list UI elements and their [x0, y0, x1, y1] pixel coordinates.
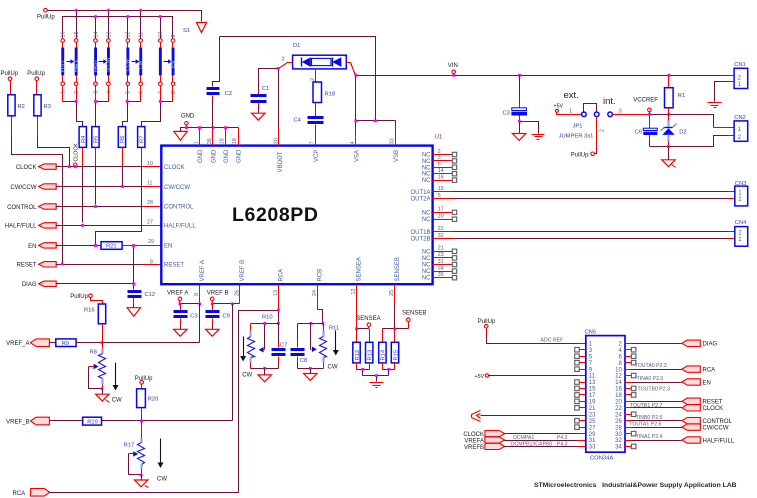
svg-text:DIAG: DIAG [22, 282, 37, 288]
arrow CW R17 [157, 439, 167, 483]
svg-text:NC: NC [422, 165, 431, 171]
svg-text:20: 20 [438, 214, 444, 220]
svg-text:CN2: CN2 [734, 115, 746, 121]
svg-text:33: 33 [589, 445, 596, 451]
svg-text:TOUTB1 P2.7: TOUTB1 P2.7 [630, 403, 663, 409]
svg-text:33: 33 [390, 138, 396, 144]
svg-text:R16: R16 [84, 308, 95, 314]
svg-text:R20: R20 [148, 397, 159, 403]
wire HALF/FULL [56, 225, 143, 227]
svg-text:16: 16 [438, 174, 444, 180]
svg-text:FAST: FAST [93, 59, 99, 72]
svg-text:CW/CCW: CW/CCW [164, 185, 190, 191]
wire +5V to pin11 [489, 375, 578, 377]
svg-text:28: 28 [615, 425, 622, 431]
svg-text:9: 9 [171, 35, 177, 38]
potentiometer R11 [310, 322, 340, 369]
svg-text:R15: R15 [393, 350, 399, 361]
wire RCB top rail [298, 323, 324, 325]
wire VIN line [356, 75, 727, 77]
wire VREF_B line [102, 420, 233, 422]
node CLOCK marker [74, 143, 80, 167]
svg-text:OUT1B: OUT1B [410, 230, 430, 236]
svg-text:R21: R21 [106, 244, 117, 250]
wire RCA bottom rail [251, 368, 279, 370]
svg-text:VIN: VIN [448, 63, 458, 69]
resistor R19 [50, 417, 102, 425]
svg-text:19: 19 [589, 400, 596, 406]
svg-text:VREF B: VREF B [207, 291, 229, 297]
port CONTROL [7, 204, 56, 211]
ground R8 [96, 394, 110, 402]
pin9 stub [199, 285, 201, 304]
svg-text:R9: R9 [62, 341, 69, 347]
ground C12 [127, 308, 140, 317]
port RESET [16, 262, 56, 269]
potentiometer R8 [89, 343, 106, 395]
wire RESET [56, 264, 143, 266]
potentiometer R17 [124, 421, 145, 480]
svg-text:CN4: CN4 [735, 220, 747, 226]
svg-text:D2: D2 [679, 129, 686, 135]
svg-text:SENSEB: SENSEB [395, 257, 401, 281]
wire ADC REF to pin1 [486, 329, 488, 335]
svg-text:RCA: RCA [279, 269, 285, 282]
svg-text:7: 7 [158, 91, 164, 94]
svg-text:NC: NC [422, 210, 431, 216]
wire CW/CCW pin28 / port CW/CCW [625, 427, 633, 429]
wire OUT2B [433, 238, 454, 240]
wire R5 to CONTROL [95, 148, 97, 167]
svg-text:NC: NC [422, 256, 431, 262]
svg-text:PullUp: PullUp [70, 294, 88, 300]
CN5 left NC stubs [575, 348, 586, 430]
svg-text:R3: R3 [44, 104, 51, 110]
svg-text:31: 31 [589, 438, 596, 444]
svg-text:28: 28 [147, 200, 153, 206]
ground C5 earth [532, 135, 545, 140]
svg-text:VSA: VSA [355, 150, 361, 162]
svg-text:34: 34 [615, 445, 622, 451]
svg-text:18: 18 [615, 393, 622, 399]
port RCA [13, 489, 50, 498]
wire OUT2A [433, 198, 454, 200]
port VREF_A [6, 339, 49, 347]
svg-text:11: 11 [147, 180, 153, 186]
svg-text:NC: NC [422, 153, 431, 159]
node VREF B [207, 291, 229, 304]
svg-text:VSB: VSB [394, 150, 400, 162]
svg-text:30: 30 [615, 432, 622, 438]
port CLOCK [16, 164, 56, 171]
resistor R12 [353, 329, 361, 370]
svg-text:NC: NC [422, 276, 431, 282]
wire EN to C12 [133, 246, 135, 290]
svg-text:+5V: +5V [475, 374, 485, 380]
svg-text:SENSEA: SENSEA [356, 316, 380, 322]
diode D1 [279, 43, 356, 83]
wire RCA pin10 / port RCA [625, 369, 633, 371]
svg-text:C4: C4 [294, 118, 302, 124]
port HALF/FULL [5, 223, 56, 230]
ground D2 [668, 147, 670, 160]
svg-text:TINB0 P2.5: TINB0 P2.5 [636, 415, 663, 421]
svg-text:U1: U1 [435, 135, 443, 141]
capacitor C9 [206, 304, 230, 330]
pin26 stub [239, 285, 241, 304]
resistor R3 [27, 71, 51, 136]
svg-text:GND: GND [211, 149, 217, 163]
capacitor C5 [503, 76, 528, 122]
svg-text:CN1: CN1 [734, 62, 746, 68]
svg-text:10: 10 [615, 367, 622, 373]
svg-text:TOUTB0 P2.3: TOUTB0 P2.3 [638, 387, 671, 393]
arrow CW R10 [240, 337, 252, 379]
svg-text:HALF/FULL: HALF/FULL [164, 224, 196, 230]
svg-text:ext.: ext. [564, 90, 579, 101]
svg-text:RCA: RCA [13, 491, 26, 497]
svg-text:ADC REF: ADC REF [541, 338, 564, 344]
svg-text:GND: GND [236, 149, 242, 163]
wire HALF/FULL pin32 / port HALF/FULL [625, 440, 633, 442]
svg-text:CLOCK: CLOCK [164, 165, 185, 171]
svg-text:RESET: RESET [164, 263, 184, 269]
svg-text:EN: EN [703, 380, 711, 386]
wire sense bottom rails [357, 370, 395, 382]
svg-text:TOUTA1 P2.6: TOUTA1 P2.6 [629, 422, 661, 428]
wire pullup rail2 [63, 17, 173, 39]
port DIAG [22, 281, 56, 288]
wire R21 to pin29 [122, 245, 161, 247]
svg-text:PullUp: PullUp [27, 71, 45, 77]
wire R4 to HALF/FULL [82, 148, 84, 167]
resistor R1 [665, 76, 686, 115]
svg-text:32: 32 [615, 438, 622, 444]
node SENSEB [402, 311, 426, 329]
svg-text:29: 29 [148, 239, 154, 245]
pin13 stub [278, 285, 280, 311]
svg-text:GND: GND [224, 149, 230, 163]
svg-text:R18: R18 [325, 92, 336, 98]
svg-text:CLOCK: CLOCK [74, 143, 80, 162]
arrow CW R8 [112, 363, 122, 404]
svg-text:C9: C9 [222, 313, 229, 319]
port CW/CCW [11, 184, 57, 191]
resistor R7 [138, 127, 146, 148]
connector CN5 [585, 330, 626, 462]
svg-text:CW: CW [138, 60, 144, 69]
svg-text:11: 11 [589, 374, 596, 380]
resistor R6 [118, 127, 126, 148]
svg-text:TOUTA0 P2.2: TOUTA0 P2.2 [635, 363, 667, 369]
svg-text:R11: R11 [329, 325, 339, 331]
svg-text:3: 3 [93, 91, 99, 94]
svg-text:R2: R2 [18, 104, 25, 110]
capacitor C12 [128, 292, 156, 308]
svg-text:OCMPB1/ICAPB0: OCMPB1/ICAPB0 [511, 441, 553, 447]
svg-text:26: 26 [615, 419, 622, 425]
svg-text:19: 19 [232, 138, 238, 144]
wire CLOCK [56, 166, 143, 168]
svg-text:10: 10 [158, 32, 164, 38]
svg-text:CONTROL: CONTROL [7, 205, 37, 211]
ground C1 [252, 113, 265, 120]
svg-text:16: 16 [615, 387, 622, 393]
svg-text:VCCREF: VCCREF [633, 97, 658, 103]
arrow off-page pin23 [472, 411, 481, 422]
svg-text:C2: C2 [225, 91, 232, 97]
svg-text:JP1: JP1 [573, 124, 583, 130]
svg-text:R8: R8 [90, 350, 97, 356]
svg-text:14: 14 [615, 380, 622, 386]
wire R6 to CW/CCW [122, 148, 124, 167]
CN5 right NC stubs [625, 348, 636, 449]
svg-text:CW: CW [328, 365, 338, 371]
svg-text:D1: D1 [293, 43, 300, 49]
svg-text:R17: R17 [124, 442, 135, 448]
svg-text:CONTROL: CONTROL [703, 419, 733, 425]
NC pin stubs [433, 152, 457, 280]
svg-text:1: 1 [194, 141, 200, 144]
wire VREF_A line [77, 342, 200, 344]
svg-text:PullUp: PullUp [37, 15, 55, 21]
svg-text:3: 3 [619, 109, 622, 115]
svg-text:VREF B: VREF B [240, 260, 246, 282]
svg-text:34: 34 [438, 265, 444, 271]
wire GND rail [181, 128, 239, 132]
svg-text:24: 24 [615, 412, 622, 418]
svg-text:13: 13 [589, 380, 596, 386]
svg-text:RCB: RCB [318, 269, 324, 282]
node PullUp (S1 rails) [37, 8, 55, 20]
port CLOCK to pin29 [463, 431, 504, 439]
svg-text:27: 27 [589, 425, 596, 431]
svg-text:SENSEA: SENSEA [357, 257, 363, 281]
wire RCB bottom rail [298, 368, 324, 370]
resistor R21 [101, 242, 122, 250]
svg-text:R19: R19 [87, 420, 98, 426]
capacitor C1 [251, 69, 279, 114]
svg-text:S1: S1 [183, 28, 190, 34]
ground RCA [258, 375, 271, 382]
svg-text:VCP: VCP [314, 150, 320, 162]
svg-text:CW: CW [112, 397, 122, 403]
junction dots left nets [61, 165, 135, 285]
svg-text:SENSEB: SENSEB [402, 311, 426, 317]
svg-text:5: 5 [126, 91, 132, 94]
svg-text:FULL: FULL [60, 60, 66, 72]
svg-text:HALF: HALF [74, 59, 80, 72]
wire VSA VSB rail [356, 76, 396, 121]
capacitor C6 [635, 115, 658, 147]
svg-text:R14: R14 [381, 349, 387, 360]
svg-text:VREF_B: VREF_B [6, 419, 29, 425]
ground C3 [174, 329, 187, 336]
svg-text:NC: NC [422, 172, 431, 178]
wire C5 to grounds [520, 122, 539, 134]
wire RCA line [50, 311, 279, 493]
resistor R16 [70, 294, 105, 343]
svg-text:1: 1 [344, 56, 347, 62]
svg-text:11: 11 [139, 32, 145, 38]
wire DIAG pin2 / port DIAG [625, 343, 633, 345]
jumper JP1 [554, 90, 622, 158]
svg-text:VREF A: VREF A [200, 260, 206, 281]
resistor R5 [92, 127, 100, 148]
svg-text:+5V: +5V [554, 103, 564, 109]
svg-text:16: 16 [61, 32, 67, 38]
wire GND pin stubs [200, 128, 239, 146]
svg-text:GND: GND [181, 113, 195, 119]
svg-text:NC: NC [422, 249, 431, 255]
svg-text:13: 13 [106, 32, 112, 38]
svg-text:CLOCK: CLOCK [703, 406, 724, 412]
svg-text:OUT2B: OUT2B [410, 237, 430, 243]
IC U1 L6208PD [147, 135, 444, 297]
svg-text:R10: R10 [262, 315, 273, 321]
svg-text:6: 6 [139, 91, 145, 94]
svg-text:STMicroelectronics Industria: STMicroelectronics Industrial&Power Supp… [534, 482, 737, 489]
svg-text:SLOW: SLOW [106, 57, 112, 72]
switch S1 [60, 32, 176, 94]
wire S1 bottom elbows [63, 86, 173, 102]
svg-text:21: 21 [589, 406, 596, 412]
svg-text:OCMPA1: OCMPA1 [513, 435, 535, 441]
svg-text:NC: NC [422, 159, 431, 165]
junction dots S1 rails [75, 9, 162, 18]
svg-text:6: 6 [438, 162, 441, 168]
svg-text:29: 29 [589, 432, 596, 438]
wire DIAG [56, 283, 134, 285]
connector CN1 [708, 62, 748, 107]
svg-text:10: 10 [147, 161, 153, 167]
svg-text:EN: EN [171, 61, 177, 68]
svg-text:14: 14 [93, 32, 99, 38]
svg-text:GND: GND [198, 149, 204, 163]
svg-text:TINA1 P2.4: TINA1 P2.4 [636, 434, 663, 440]
node VREF A [167, 291, 188, 304]
ground C9 [206, 329, 219, 336]
wire VREFB vertical [232, 304, 234, 421]
resistor R4 [79, 127, 87, 148]
svg-text:8: 8 [171, 91, 177, 94]
svg-text:int.: int. [603, 96, 616, 107]
pin25 stub [394, 285, 396, 306]
connector CN4 [735, 220, 748, 246]
port EN [28, 243, 56, 250]
svg-text:CW: CW [157, 477, 167, 483]
wire CONTROL pin26 / port CONTROL [625, 420, 633, 422]
port VREF_B [6, 417, 49, 425]
svg-text:L6208PD: L6208PD [232, 204, 318, 226]
svg-text:RESET: RESET [703, 400, 723, 406]
svg-text:12: 12 [126, 32, 132, 38]
svg-text:VREFA: VREFA [464, 438, 484, 444]
node SENSEA [356, 316, 380, 329]
svg-text:CLOCK: CLOCK [16, 165, 37, 171]
svg-text:CONTROL: CONTROL [164, 205, 194, 211]
svg-text:VBOOT: VBOOT [278, 151, 284, 172]
svg-text:25: 25 [589, 419, 596, 425]
wire VBOOT [278, 69, 280, 127]
svg-text:OUT2A: OUT2A [410, 197, 430, 203]
svg-text:OUT1A: OUT1A [410, 190, 430, 196]
svg-text:VREF A: VREF A [167, 291, 188, 297]
arrow off-page S1 [183, 23, 207, 35]
pin24 stub [317, 285, 319, 310]
wire VREFB rail [213, 303, 240, 305]
node VIN [448, 63, 458, 76]
svg-text:2: 2 [600, 129, 606, 132]
wire VCCREF rail [613, 114, 649, 116]
svg-text:PullUp: PullUp [571, 152, 589, 158]
wire S1 top pin drops [77, 11, 161, 39]
wire R3 to CLOCK [38, 136, 70, 167]
svg-text:CLOCK: CLOCK [463, 432, 484, 438]
svg-text:CON34A: CON34A [590, 455, 613, 461]
wire VCCREF bottom rail [650, 136, 729, 147]
svg-text:C3: C3 [190, 313, 197, 319]
svg-text:18: 18 [220, 138, 226, 144]
svg-text:C3: C3 [503, 111, 510, 117]
svg-text:17: 17 [589, 393, 596, 399]
svg-text:NC: NC [422, 269, 431, 275]
node GND [181, 113, 195, 127]
svg-text:15: 15 [74, 32, 80, 38]
svg-text:P4.2: P4.2 [557, 435, 568, 441]
port VREFB to pin33 [464, 443, 505, 451]
wire SENSEA rail [357, 328, 369, 330]
node PullUp CN5 [478, 319, 496, 328]
ground RCB [304, 374, 317, 381]
svg-text:C8: C8 [300, 358, 307, 364]
svg-text:VREF_A: VREF_A [6, 341, 29, 347]
svg-text:C6: C6 [635, 130, 642, 136]
svg-text:PullUp: PullUp [1, 71, 19, 77]
ground C5 triangle [512, 134, 526, 141]
ground R17 [135, 480, 149, 488]
svg-text:CW/CCW: CW/CCW [703, 425, 729, 431]
capacitor C8 [291, 324, 308, 369]
svg-text:1: 1 [61, 91, 67, 94]
wire EN to R21 [56, 245, 102, 247]
node +5V [475, 374, 489, 380]
svg-text:CCW: CCW [126, 59, 132, 71]
svg-text:EN: EN [164, 244, 172, 250]
resistor R15 [391, 329, 399, 370]
wire OUT1A [433, 191, 454, 193]
wire CONTROL [56, 206, 143, 208]
svg-text:3: 3 [282, 57, 285, 63]
svg-text:DIAG: DIAG [703, 342, 718, 348]
svg-text:17: 17 [438, 207, 444, 213]
wire top loop to VSA/VSB rail [220, 37, 376, 121]
svg-text:R1: R1 [678, 93, 685, 99]
svg-text:23: 23 [589, 412, 596, 418]
wire R2 to RESET [12, 136, 63, 264]
svg-text:HALF/FULL: HALF/FULL [703, 438, 735, 444]
svg-text:EN: EN [28, 244, 36, 250]
svg-text:C1: C1 [262, 86, 269, 92]
resistor R9 [50, 339, 77, 347]
svg-text:CN5: CN5 [585, 330, 597, 336]
wire CLOCK pin22 / port CLOCK [625, 407, 633, 409]
wire R7 to EN [141, 148, 143, 167]
svg-text:R4: R4 [81, 135, 87, 143]
svg-text:1: 1 [569, 109, 572, 115]
capacitor C7 [272, 324, 288, 369]
svg-text:RCA: RCA [703, 367, 716, 373]
